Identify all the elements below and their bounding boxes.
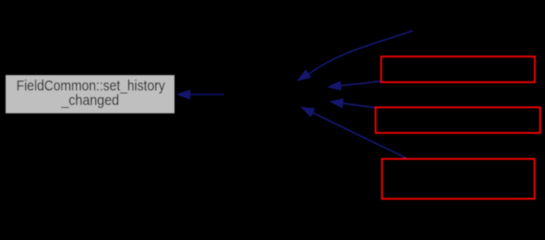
svg-text:_changed: _changed: [60, 93, 119, 109]
edge E1: curve from top-right (offscreen node) -> middle node top: [297, 31, 413, 81]
node: FieldCommon::set_history_changed (current, grey): [6, 75, 175, 113]
edge E4: red box 3 -> middle node bottom: [300, 107, 406, 158]
node: red box 1 (truncated caller): [381, 57, 535, 83]
node: red box 3 (truncated caller): [382, 159, 535, 199]
edge E2: red box 1 -> middle node right: [327, 81, 381, 91]
edge E0: middle node -> set_history_changed: [176, 90, 224, 100]
node: red box 2 (truncated caller): [376, 107, 540, 133]
edge E3: red box 2 -> middle node right: [329, 98, 375, 108]
